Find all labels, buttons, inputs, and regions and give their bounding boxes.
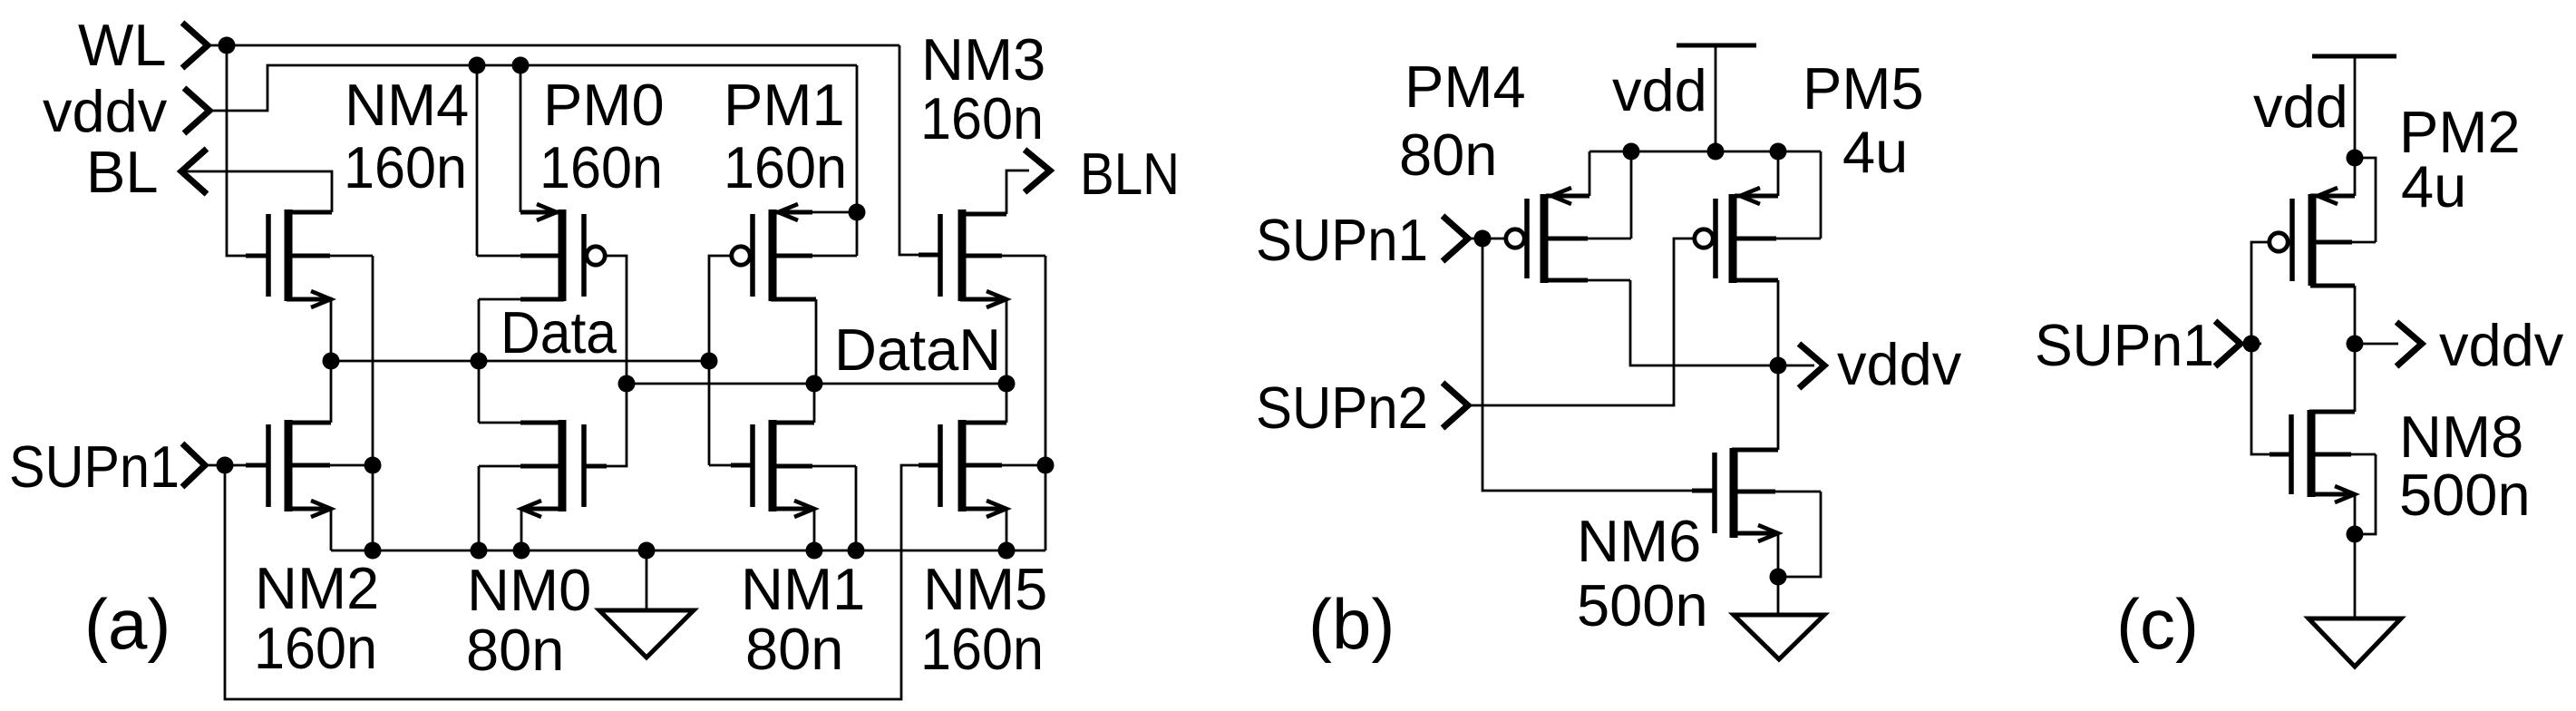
wire NM5 drain to DataN bbox=[1006, 384, 1008, 423]
node Data middle junction bbox=[471, 353, 488, 370]
wire PM0 drain to Data bbox=[478, 299, 481, 361]
node PM0 source at vddv rail bbox=[512, 57, 530, 74]
wire PM5 drain to vddv node bbox=[1777, 280, 1780, 365]
wire PM5 source to rail bbox=[1777, 151, 1780, 196]
wire vddv to rail bbox=[209, 65, 857, 111]
svg-text:160n: 160n bbox=[254, 615, 377, 681]
ground symbol (b) bbox=[1734, 577, 1824, 659]
wire SUPn1 down to NM8 gate bbox=[2251, 344, 2289, 454]
svg-text:SUPn1: SUPn1 bbox=[1256, 207, 1428, 273]
svg-text:PM5: PM5 bbox=[1803, 55, 1924, 122]
power vdd symbol (b) bbox=[1677, 45, 1756, 151]
svg-text:BL: BL bbox=[86, 139, 159, 205]
svg-text:NM5: NM5 bbox=[923, 556, 1047, 622]
node vdd stem at rail bbox=[1707, 143, 1725, 161]
wire WL down to NM3 gate bbox=[899, 45, 939, 255]
wire PM4 drain to vddv node bbox=[1630, 280, 1778, 365]
svg-text:NM0: NM0 bbox=[467, 557, 591, 623]
transistor NM2 bbox=[246, 420, 373, 517]
node NM5 source at ground rail bbox=[998, 542, 1016, 560]
wire NM1 bulk to ground rail bbox=[855, 466, 858, 550]
wire PM1 drain to DataN bbox=[815, 299, 818, 384]
node vddv junction (b) bbox=[1770, 357, 1787, 375]
svg-text:4u: 4u bbox=[2401, 153, 2466, 219]
wire BL to NM4 drain bbox=[181, 171, 332, 212]
svg-text:vdd: vdd bbox=[2253, 73, 2348, 140]
wire NM3 bulk down right side bbox=[1045, 256, 1047, 550]
svg-text:NM3: NM3 bbox=[921, 26, 1045, 93]
wire NM2 bulk to ground rail bbox=[372, 465, 374, 550]
node PM0 bulk at vddv rail bbox=[469, 57, 486, 74]
node SUPn1 junction (b) bbox=[1474, 230, 1492, 248]
wire SUPn1 bottom run to NM5 gate bbox=[225, 465, 939, 699]
svg-text:vdd: vdd bbox=[1612, 57, 1707, 123]
wire NM1 gate lead bbox=[709, 464, 751, 467]
svg-text:80n: 80n bbox=[1399, 122, 1497, 188]
wire SUPn2 to PM5 gate bbox=[1468, 239, 1694, 405]
svg-text:vddv: vddv bbox=[43, 78, 168, 144]
svg-text:160n: 160n bbox=[724, 134, 847, 200]
node PM5 source at vdd rail bbox=[1770, 143, 1787, 161]
ground symbol (a) bbox=[599, 550, 694, 657]
node DataN right junction bbox=[998, 375, 1016, 393]
wire ground rail bbox=[331, 550, 1045, 552]
svg-text:160n: 160n bbox=[920, 616, 1044, 682]
svg-text:500n: 500n bbox=[2399, 462, 2531, 528]
svg-text:160n: 160n bbox=[540, 134, 663, 200]
wire PM2 source to vdd bbox=[2354, 158, 2357, 196]
transistor NM3 (BLN access) bbox=[919, 209, 1045, 307]
wire NM8 source down bbox=[2354, 494, 2357, 534]
wire NM2 drain to Data bbox=[330, 361, 333, 423]
node NM2 bulk junction bbox=[365, 457, 382, 474]
port vddv (input) bbox=[43, 78, 209, 144]
wire WL down to NM4 gate bbox=[227, 45, 267, 256]
svg-text:(c): (c) bbox=[2116, 584, 2199, 664]
node vddv junction (c) bbox=[2347, 336, 2364, 353]
svg-text:(b): (b) bbox=[1308, 584, 1395, 664]
svg-text:80n: 80n bbox=[466, 617, 564, 683]
node NM5 bulk junction bbox=[1037, 457, 1055, 474]
svg-text:SUPn1: SUPn1 bbox=[2035, 312, 2214, 378]
transistor NM0 bbox=[479, 420, 607, 517]
node NM6 source junction bbox=[1770, 569, 1787, 586]
wire PM5 bulk to rail end bbox=[1820, 151, 1823, 239]
svg-text:BLN: BLN bbox=[1080, 141, 1180, 207]
wire NM5 source to ground rail bbox=[1006, 509, 1008, 550]
node WL junction bbox=[219, 37, 236, 54]
svg-text:NM6: NM6 bbox=[1577, 508, 1701, 574]
wire PM0 gate to DataN bbox=[607, 256, 627, 384]
svg-text:(a): (a) bbox=[84, 584, 170, 664]
transistor NM4 (BL access) bbox=[246, 209, 373, 307]
svg-text:PM0: PM0 bbox=[543, 72, 665, 138]
wire PM1 gate to Data bbox=[709, 256, 730, 361]
transistor PM2 bbox=[2270, 188, 2376, 286]
node DataN middle junction bbox=[806, 375, 823, 393]
node NM1 bulk at ground rail bbox=[848, 542, 865, 560]
svg-text:160n: 160n bbox=[344, 134, 467, 200]
wire PM0 source to rail bbox=[520, 65, 522, 212]
wire PM2 gate down bbox=[2251, 242, 2268, 344]
node Data right junction bbox=[701, 353, 718, 370]
node NM2 bulk at ground rail bbox=[365, 542, 382, 560]
wire NM1 gate from Data bbox=[708, 361, 711, 465]
transistor PM0 bbox=[477, 204, 605, 301]
svg-text:DataN: DataN bbox=[834, 317, 1001, 383]
svg-text:NM1: NM1 bbox=[741, 556, 865, 622]
node PM1 source/bulk junction bbox=[849, 204, 866, 221]
wire WL rail bbox=[208, 44, 899, 47]
port BLN (output) bbox=[1006, 141, 1180, 214]
wire SUPn1 stub (b) bbox=[1468, 238, 1505, 240]
node NM0 source at ground rail bbox=[513, 542, 530, 560]
node ground tap junction bbox=[638, 542, 656, 560]
svg-text:NM4: NM4 bbox=[345, 72, 469, 138]
wire NM4 bulk down bbox=[372, 256, 374, 465]
wire PM0 bulk to rail bbox=[476, 65, 479, 256]
node SUPn1 junction (c) bbox=[2243, 336, 2260, 353]
svg-text:vddv: vddv bbox=[1837, 331, 1962, 397]
wire vddv node down to NM6 drain bbox=[1777, 365, 1780, 450]
wire vdd rail (b) bbox=[1589, 151, 1821, 153]
svg-text:SUPn2: SUPn2 bbox=[1256, 375, 1428, 441]
transistor NM5 bbox=[919, 420, 1045, 517]
port vddv (output, b) bbox=[1778, 331, 1962, 397]
wire NM1 drain to DataN bbox=[813, 384, 816, 423]
node NM1 source at ground rail bbox=[806, 542, 823, 560]
net Data bbox=[331, 360, 709, 363]
wire NM0 gate to DataN bbox=[587, 384, 627, 466]
wire PM1 source to vddv rail bbox=[856, 65, 859, 256]
node NM0 bulk at ground rail bbox=[471, 542, 488, 560]
wire NM8 drain to vddv bbox=[2354, 344, 2357, 412]
wire SUPn1 stub (c) bbox=[2241, 343, 2261, 346]
svg-text:PM4: PM4 bbox=[1405, 54, 1526, 120]
wire NM1 source to ground rail bbox=[813, 509, 816, 550]
node NM8 source junction bbox=[2347, 526, 2364, 543]
wire SUPn1 to NM2 gate bbox=[205, 464, 267, 467]
wire NM2 source to ground rail bbox=[330, 509, 333, 550]
port BL (output) bbox=[86, 139, 207, 205]
port SUPn1 (c) bbox=[2035, 312, 2241, 378]
wire PM2 drain to vddv bbox=[2354, 286, 2357, 344]
svg-text:NM8: NM8 bbox=[2399, 404, 2523, 470]
wire NM6 source down bbox=[1777, 533, 1780, 577]
transistor NM1 bbox=[731, 420, 856, 517]
ground symbol (c) bbox=[2309, 534, 2401, 667]
svg-text:PM1: PM1 bbox=[724, 72, 845, 138]
wire PM4 source to rail bbox=[1589, 151, 1591, 196]
wire PM4 bulk to rail bbox=[1630, 151, 1633, 239]
net DataN bbox=[627, 383, 1006, 385]
svg-text:vddv: vddv bbox=[2439, 312, 2564, 378]
transistor PM4 bbox=[1506, 188, 1631, 283]
wire NM8 bulk loop to source bbox=[2355, 454, 2376, 534]
port vddv (output, c) bbox=[2355, 312, 2564, 378]
wire NM6 bulk loop to source bbox=[1778, 492, 1821, 577]
port WL (input) bbox=[78, 12, 208, 78]
wire NM3 source to DataN bbox=[1006, 299, 1008, 384]
node PM4 bulk at vdd rail bbox=[1623, 143, 1640, 161]
wire NM4 source to Data bbox=[330, 299, 333, 361]
svg-text:SUPn1: SUPn1 bbox=[9, 433, 180, 500]
node DataN left junction bbox=[618, 375, 636, 393]
svg-text:NM2: NM2 bbox=[255, 555, 379, 621]
port SUPn1 (b) bbox=[1256, 207, 1468, 273]
svg-text:Data: Data bbox=[501, 299, 617, 365]
svg-text:4u: 4u bbox=[1842, 119, 1908, 185]
wire NM0 drain to Data bbox=[478, 361, 481, 423]
transistor PM5 bbox=[1695, 188, 1821, 283]
transistor PM1 bbox=[732, 204, 857, 301]
power vdd symbol (c) bbox=[2312, 56, 2396, 158]
node SUPn1 junction bbox=[217, 457, 234, 474]
svg-text:160n: 160n bbox=[920, 85, 1044, 151]
node Data left junction bbox=[323, 353, 340, 370]
svg-text:80n: 80n bbox=[745, 616, 843, 682]
port SUPn1 (input) bbox=[9, 433, 205, 500]
transistor NM6 bbox=[1692, 448, 1821, 541]
wire NM0 bulk to ground rail bbox=[478, 466, 481, 550]
wire SUPn1 down to NM6 gate (b) bbox=[1482, 239, 1712, 491]
wire NM0 source to ground rail bbox=[520, 509, 523, 550]
transistor NM8 bbox=[2270, 410, 2376, 502]
svg-text:500n: 500n bbox=[1577, 572, 1708, 638]
node vdd junction (c) bbox=[2347, 150, 2364, 167]
wire PM2 bulk loop to vdd bbox=[2355, 158, 2376, 242]
svg-text:WL: WL bbox=[78, 12, 167, 78]
port SUPn2 (b) bbox=[1256, 375, 1468, 441]
